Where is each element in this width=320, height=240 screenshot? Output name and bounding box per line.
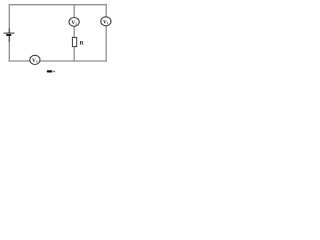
svg-text:R: R	[80, 40, 84, 46]
voltmeter V2 circle	[69, 18, 79, 27]
svg-text:V2: V2	[71, 20, 77, 26]
battery lead stub upper	[8, 29, 10, 34]
battery lead stub lower	[8, 36, 10, 43]
wire V2 to resistor	[73, 26, 75, 37]
caption text fragment clipped at bottom edge	[47, 70, 55, 72]
wire top horizontal	[9, 4, 107, 6]
wire right vertical upper	[105, 4, 107, 17]
wire bottom left horizontal	[9, 60, 31, 62]
voltmeter V3 circle	[30, 55, 40, 64]
wire left vertical upper	[8, 4, 10, 33]
battery cell long plate	[4, 32, 15, 34]
wire right vertical lower	[105, 26, 107, 62]
battery cell short thick plate	[6, 34, 11, 36]
svg-text:V1: V1	[103, 19, 109, 25]
wire branch V2 stub from top wire	[73, 4, 75, 17]
wire left vertical lower	[8, 35, 10, 62]
wire resistor to bottom wire	[73, 47, 75, 62]
voltmeter V1 circle	[101, 17, 111, 26]
svg-text:V3: V3	[32, 58, 38, 64]
resistor R body	[72, 37, 76, 46]
wire bottom right horizontal	[40, 60, 107, 62]
